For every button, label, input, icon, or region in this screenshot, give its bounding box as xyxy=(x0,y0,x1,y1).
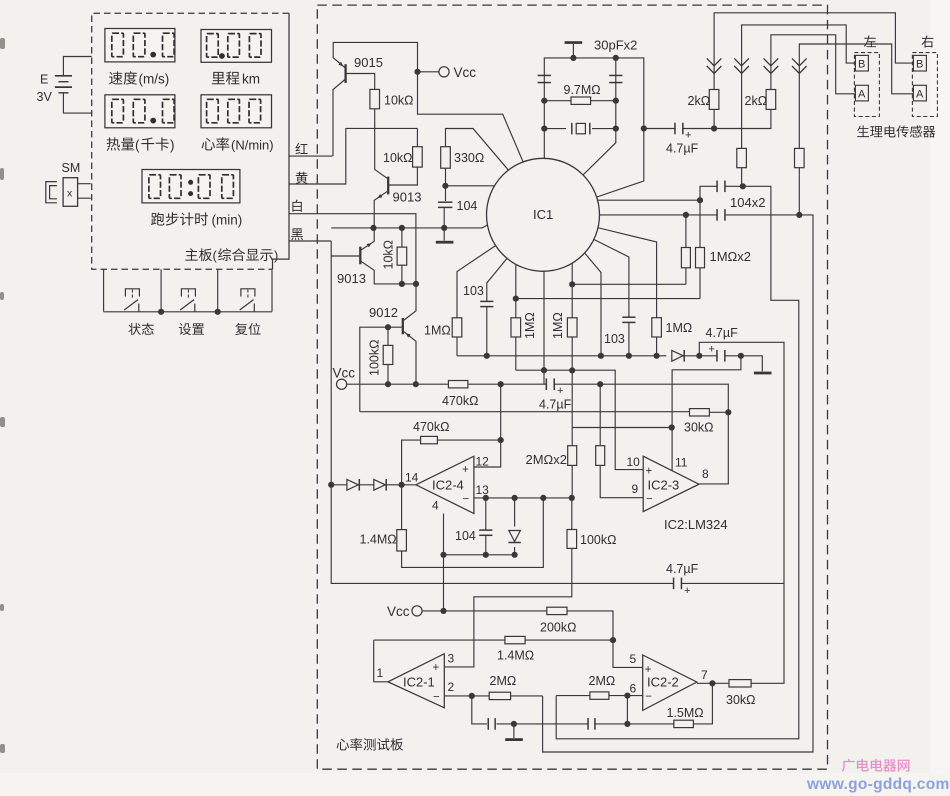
label 黄 xyxy=(296,172,308,184)
wire black rail xyxy=(331,223,492,228)
junction upper 104 tap xyxy=(697,197,703,203)
crystal X1 xyxy=(566,122,592,135)
svg-text:1.5MΩ: 1.5MΩ xyxy=(667,706,704,720)
watermark 广电电器网 xyxy=(842,759,909,772)
sensor right dashed box xyxy=(912,53,937,117)
display 热量 box xyxy=(105,95,175,128)
svg-text:+: + xyxy=(557,385,563,397)
svg-text:4.7µF: 4.7µF xyxy=(539,398,572,412)
heart-rate test board dashed border 心率测试板 xyxy=(317,5,827,769)
wire crystal row xyxy=(544,128,616,130)
diode D2 xyxy=(374,479,385,490)
label 红 xyxy=(295,143,307,154)
svg-text:IC2-3: IC2-3 xyxy=(648,478,680,493)
terminal Vcc2 circle xyxy=(412,606,422,616)
wire pin2 row xyxy=(444,695,542,697)
switch SM magnet symbol xyxy=(46,182,57,203)
junction pin13 100k/2M xyxy=(569,495,575,501)
op-amp U4 IC2-2 (points right) xyxy=(643,655,697,710)
push button S1 xyxy=(125,289,139,297)
label 心率(N/min) xyxy=(202,137,230,150)
label 右 xyxy=(921,35,933,47)
junction antenna tap xyxy=(570,55,576,61)
sensor left dashed box xyxy=(854,53,879,117)
wire IC1 pin to 1M#1 xyxy=(457,244,498,356)
svg-text:(: ( xyxy=(135,138,140,153)
wire 1.4M2 row xyxy=(374,640,643,667)
label 生理电传感器 xyxy=(857,125,935,137)
junction C5/R11 xyxy=(740,183,746,189)
wire C5 right to sensor bus xyxy=(556,186,799,739)
display 跑步计时 box xyxy=(142,170,240,203)
junction 470k2 right xyxy=(498,437,504,443)
label 黑 xyxy=(291,228,303,240)
svg-text:IC1: IC1 xyxy=(533,207,553,222)
junction pin13 D3 xyxy=(511,495,517,501)
svg-text:6: 6 xyxy=(630,682,637,696)
resistor R11 (sensor2) xyxy=(737,148,747,167)
resistor R16 1MΩ xyxy=(511,318,521,337)
capacitor C10 4.7µF electrolytic xyxy=(547,377,553,391)
svg-text:1.4MΩ: 1.4MΩ xyxy=(497,649,534,663)
display 速度 digits 00.0 xyxy=(112,33,124,57)
junction lower 104 left tap xyxy=(683,212,689,218)
op-amp U3 IC2-1 (points left) xyxy=(388,654,444,708)
svg-text:(min): (min) xyxy=(212,213,243,228)
svg-text:(m/s): (m/s) xyxy=(139,72,170,87)
svg-text:Vcc: Vcc xyxy=(333,366,356,381)
junction black rail - C1/gnd xyxy=(441,225,447,231)
svg-text:1.4MΩ: 1.4MΩ xyxy=(360,533,397,547)
transistor Q2 9013 base bar xyxy=(387,177,389,195)
svg-text:−: − xyxy=(646,494,653,506)
switch SM body xyxy=(63,178,78,207)
svg-text:IC2-2: IC2-2 xyxy=(647,675,679,690)
display 跑步计时 digits 00:00 xyxy=(149,175,161,199)
ground G1 xyxy=(443,228,445,241)
svg-text:): ) xyxy=(274,248,278,263)
wire C9-out loop to x784 rail xyxy=(699,342,784,683)
svg-text:200kΩ: 200kΩ xyxy=(540,621,576,635)
svg-text:470kΩ: 470kΩ xyxy=(413,420,449,434)
resistor R9 2kΩ xyxy=(709,90,719,110)
resistor R27 1.4MΩ xyxy=(505,636,525,643)
wire sensor line 3 (to left-A) xyxy=(771,35,855,94)
svg-text:2kΩ: 2kΩ xyxy=(688,94,711,108)
svg-text:30kΩ: 30kΩ xyxy=(726,693,756,707)
junction 9.7M left xyxy=(541,98,547,104)
wire crystal branch left xyxy=(544,58,644,198)
wire button rail xyxy=(104,311,272,313)
transistor Q3 9013 base lead from rail xyxy=(331,255,360,257)
push button S2 xyxy=(181,289,195,297)
wire left bus vertical xyxy=(331,241,673,583)
resistor R26 200kΩ xyxy=(547,607,567,614)
junction bus x601 xyxy=(598,353,604,359)
capacitor C2 30pF xyxy=(538,75,551,77)
resistor R12 (sensor4) xyxy=(795,148,805,167)
junction Vcc rail 470k right xyxy=(498,381,504,387)
resistor R20 30kΩ xyxy=(690,409,710,416)
junction 30k/pin8 node xyxy=(725,409,731,415)
junction bus 1M#4 xyxy=(654,353,660,359)
svg-text:100kΩ: 100kΩ xyxy=(580,533,616,547)
capacitor C12 4.7µF electrolytic xyxy=(674,577,680,591)
svg-text:www.go-gddq.com: www.go-gddq.com xyxy=(806,776,950,793)
junction gnd tap xyxy=(511,721,517,727)
junction C6/sensor4 xyxy=(796,212,802,218)
svg-text:−: − xyxy=(433,692,440,704)
capacitor C13 xyxy=(489,717,494,731)
resistor R31 30kΩ xyxy=(729,680,751,687)
svg-text:IC2:LM324: IC2:LM324 xyxy=(664,517,728,532)
wire pin6 row xyxy=(556,696,643,724)
wire button drops from display unit xyxy=(104,269,272,312)
wire IC1 pin to bus x601 xyxy=(583,251,601,356)
wire 9012-base long rail to 30k xyxy=(360,411,690,413)
junction Vcc tap xyxy=(414,69,420,75)
wire 9015 base to 10k xyxy=(346,74,375,90)
junction pin14 node xyxy=(399,482,405,488)
svg-text:+: + xyxy=(433,662,440,674)
wire sensor line 1 (to right-B) xyxy=(714,13,914,90)
wire sensor line 4 (to right-A) xyxy=(799,44,914,148)
resistor R1 10kΩ xyxy=(375,89,388,178)
transistor Q1 9015 emitter arrow xyxy=(338,62,343,66)
svg-text:104: 104 xyxy=(457,199,478,213)
display 热量 digits 00.0 xyxy=(112,99,124,123)
IC1 chip circle xyxy=(487,158,600,271)
wire pin4 ground rail xyxy=(444,514,515,611)
junction rail D3 xyxy=(511,552,517,558)
svg-text:x: x xyxy=(67,188,73,200)
resistor R2 10kΩ xyxy=(388,128,417,185)
junction R14-bus xyxy=(513,296,519,302)
resistor R22 1.4MΩ xyxy=(402,485,544,568)
junction pin6 xyxy=(624,693,630,699)
resistor R14 1MΩx2 right xyxy=(699,200,701,298)
wire pin10 rail xyxy=(516,370,643,469)
display 心率 box xyxy=(201,95,272,128)
junction buttons node 2 xyxy=(215,309,221,315)
transistor Q4 9012 emitter wire xyxy=(403,331,416,384)
svg-text:4.7µF: 4.7µF xyxy=(706,326,739,340)
junction C4 left xyxy=(641,125,647,131)
junction 9012 base / 100k xyxy=(385,324,391,330)
svg-text:3: 3 xyxy=(448,652,455,666)
svg-text:30kΩ: 30kΩ xyxy=(684,421,714,435)
capacitor C7 103 xyxy=(480,300,493,302)
label 热量(千卡) xyxy=(107,137,135,150)
svg-text:103: 103 xyxy=(463,284,484,298)
svg-text:3V: 3V xyxy=(37,90,53,104)
junction bus 103#1 xyxy=(484,353,490,359)
resistor R10 2kΩ xyxy=(766,90,776,110)
capacitor C3 30pF xyxy=(609,75,622,77)
junction Vcc rail 100k xyxy=(385,381,391,387)
svg-text:10kΩ: 10kΩ xyxy=(382,240,396,270)
display 里程 box xyxy=(201,30,272,63)
svg-text:9: 9 xyxy=(632,482,639,496)
ground G3 xyxy=(513,724,515,738)
junction pin7/1.5M xyxy=(709,680,715,686)
junction Vcc rail 9012 xyxy=(413,381,419,387)
capacitor C11 104 xyxy=(485,498,487,555)
resistor R30 2MΩ xyxy=(590,692,609,699)
label 状态 xyxy=(128,323,153,335)
svg-text:IC2-4: IC2-4 xyxy=(432,478,464,493)
junction pin13 feedback xyxy=(540,495,546,501)
capacitor C4 4.7µF electrolytic xyxy=(644,128,714,130)
svg-text:−: − xyxy=(463,494,470,506)
svg-text:5: 5 xyxy=(630,652,637,666)
svg-text:B: B xyxy=(916,59,923,71)
diode D3 vertical xyxy=(514,498,516,555)
wire 2k bottoms to C4 node xyxy=(714,109,771,128)
svg-text:103: 103 xyxy=(604,332,625,346)
diode D4 xyxy=(672,350,683,361)
wire 白 white lead xyxy=(289,214,416,284)
junction collector rail R3 xyxy=(399,281,405,287)
label 白 xyxy=(292,200,301,212)
svg-text:−: − xyxy=(645,691,652,703)
wire 红 red lead xyxy=(289,155,332,157)
svg-text:10kΩ: 10kΩ xyxy=(384,94,414,108)
wire main bottom bus xyxy=(457,356,762,372)
junction black rail - R3 top xyxy=(399,225,405,231)
op-amp U1 IC2-4 (points left) xyxy=(416,456,474,513)
battery E 3V wires xyxy=(63,57,91,114)
junction C4 right / 2k xyxy=(711,125,717,131)
junction bus C9 right xyxy=(738,353,744,359)
label 里程km xyxy=(212,72,240,85)
label 心率测试板 xyxy=(337,738,403,751)
svg-text:100kΩ: 100kΩ xyxy=(368,340,382,376)
svg-text:SM: SM xyxy=(62,161,81,175)
junction bus diode out xyxy=(696,353,702,359)
capacitor C8 103 xyxy=(622,316,635,318)
junction Vcc rail 2M right xyxy=(597,381,603,387)
display 里程 digits 0.00 xyxy=(207,34,219,58)
junction pin11/2M rail xyxy=(669,424,675,430)
wire Vcc2 rail xyxy=(422,611,613,640)
resistor R8 9.7MΩ xyxy=(571,97,591,104)
junction rail C11 xyxy=(483,552,489,558)
transistor Q2 9013 emitter wire xyxy=(374,191,388,228)
svg-text:1: 1 xyxy=(377,666,384,680)
svg-text:330Ω: 330Ω xyxy=(454,151,484,165)
sensor right B plate xyxy=(913,55,926,71)
svg-text:1MΩx2: 1MΩx2 xyxy=(710,249,752,264)
terminal Vcc circle xyxy=(439,67,449,77)
label 设置 xyxy=(179,323,204,335)
junction crystal left xyxy=(541,126,547,132)
svg-text:A: A xyxy=(858,89,866,101)
resistor R21 470kΩ xyxy=(421,436,438,443)
label 跑步计时 (min) xyxy=(151,212,208,225)
transistor Q4 9012 collector wire xyxy=(403,284,416,321)
junction collector rail white xyxy=(413,281,419,287)
wire C12 right xyxy=(682,582,784,584)
junction pin13 C11 xyxy=(483,495,489,501)
capacitor C14 xyxy=(589,717,594,731)
junction crystal right xyxy=(613,126,619,132)
resistor R29 1.5MΩ xyxy=(674,720,694,727)
capacitor C5 104 upper xyxy=(718,180,724,194)
junction 200k/1.4M node xyxy=(610,637,616,643)
svg-text:+: + xyxy=(646,466,653,478)
svg-text:13: 13 xyxy=(476,483,490,497)
resistor R28 2MΩ xyxy=(489,692,510,699)
svg-text:10: 10 xyxy=(627,455,641,469)
svg-text:30pFx2: 30pFx2 xyxy=(594,38,637,53)
svg-text:104x2: 104x2 xyxy=(730,195,765,210)
wire diode input row xyxy=(331,484,416,486)
antenna test bar xyxy=(572,44,574,58)
svg-text:Vcc: Vcc xyxy=(387,604,410,619)
wire IC1 pin x572 chain xyxy=(572,262,672,498)
junction 9.7M right xyxy=(613,98,619,104)
svg-text:4.7µF: 4.7µF xyxy=(666,142,699,156)
wire IC2-1 output loop xyxy=(374,640,388,682)
transistor Q3 9013 base bar xyxy=(359,247,361,265)
wire sensor line 2 (to left-B) xyxy=(742,25,856,148)
transistor Q4 9012 base bar xyxy=(402,318,404,334)
wire C6 right jog down right-rail xyxy=(543,215,813,752)
svg-text:470kΩ: 470kΩ xyxy=(442,394,478,408)
svg-text:10kΩ: 10kΩ xyxy=(383,151,413,165)
resistor R19 470kΩ xyxy=(448,381,468,388)
wire Vcc terminal lead xyxy=(418,71,439,73)
svg-text:B: B xyxy=(858,59,865,71)
label 复位 xyxy=(235,323,260,335)
svg-text:4.7µF: 4.7µF xyxy=(666,562,699,576)
wire 330R bottom node to IC1 pin xyxy=(445,168,500,201)
display 心率 digits 000 xyxy=(207,99,219,123)
junction rail pin4 xyxy=(440,552,446,558)
resistor R24 2MΩx2 right xyxy=(600,384,643,498)
junction bus 103#2 xyxy=(626,353,632,359)
resistor R18 1MΩ xyxy=(652,318,662,337)
junction top right corner xyxy=(613,55,619,61)
wire IC1 pin to 103#2 xyxy=(593,239,629,356)
svg-text:(N/min): (N/min) xyxy=(231,138,274,153)
battery E plates xyxy=(55,75,72,77)
svg-text:2MΩx2: 2MΩx2 xyxy=(526,452,568,467)
junction 330R/104 node xyxy=(442,183,448,189)
sensor left A plate xyxy=(855,85,868,101)
display unit right edge xyxy=(273,13,290,269)
wire 330R top to IC1 xyxy=(446,129,511,173)
svg-text:E: E xyxy=(40,73,48,87)
svg-text:8: 8 xyxy=(702,467,709,481)
svg-text:(: ( xyxy=(213,248,218,263)
switch SM wires xyxy=(78,184,91,199)
scan artifacts left edge xyxy=(0,38,5,49)
svg-text:+: + xyxy=(684,585,690,597)
junction x572 pin10 rail xyxy=(569,367,575,373)
svg-text:IC2-1: IC2-1 xyxy=(403,675,435,690)
capacitor C6 104 lower xyxy=(718,208,724,222)
wire IC1 right pin to 104x2 upper xyxy=(597,186,717,200)
svg-text:2kΩ: 2kΩ xyxy=(745,94,768,108)
svg-text:9015: 9015 xyxy=(354,55,383,70)
transistor Q4 9012 base wire xyxy=(360,327,403,412)
wire R12 to 104 row xyxy=(798,168,800,215)
svg-text:+: + xyxy=(709,344,715,356)
wire IC1 pin to 103#1 xyxy=(487,256,509,356)
wire 9.7M row xyxy=(544,100,616,102)
svg-text:12: 12 xyxy=(476,455,490,469)
svg-text:2MΩ: 2MΩ xyxy=(490,674,517,688)
wire 9015 collector to red xyxy=(333,79,346,156)
transistor Q1 9015 base bar xyxy=(344,64,346,83)
svg-text:2: 2 xyxy=(448,680,455,694)
resistor R3 10kΩ xyxy=(401,228,403,284)
wire IC1 pin x516 xyxy=(515,262,517,370)
wire cap row bottom xyxy=(472,683,713,724)
junction C14/pin6 xyxy=(624,721,630,727)
wire IC1 right pin to 104x2 lower xyxy=(597,214,717,216)
wire crystal branch right xyxy=(581,58,616,177)
svg-text:1MΩ: 1MΩ xyxy=(551,312,565,339)
svg-text:km: km xyxy=(242,72,260,87)
junction Vcc2/IC2-1 supply xyxy=(440,608,446,614)
svg-text:9012: 9012 xyxy=(369,305,398,320)
svg-text:2MΩ: 2MΩ xyxy=(589,674,616,688)
svg-text:1MΩ: 1MΩ xyxy=(666,321,693,335)
label 速度(m/s) xyxy=(109,71,137,84)
svg-text:+: + xyxy=(645,664,652,676)
push button S3 xyxy=(241,289,255,297)
svg-text:1MΩ: 1MΩ xyxy=(523,312,537,339)
label 左 xyxy=(864,35,876,47)
resistor R23 2MΩx2 left xyxy=(568,446,577,466)
wire IC1 center pin x544 xyxy=(543,262,545,384)
wire C9 bottom jog to pin11 branch xyxy=(672,356,741,471)
resistor R17 1MΩ xyxy=(567,318,577,337)
junction R13-bus xyxy=(569,281,575,287)
capacitor C9 4.7µF electrolytic xyxy=(718,349,724,363)
wire 9015 emitter to Vcc rail xyxy=(333,42,524,164)
ground G2 xyxy=(754,372,772,375)
junction x544 pin10 rail xyxy=(541,367,547,373)
wire pin13 row xyxy=(474,497,572,499)
wire 30k right lead xyxy=(709,411,728,413)
junction buttons node 1 xyxy=(158,309,164,315)
transistor Q3 9013 emitter wire xyxy=(360,228,374,251)
svg-text:+: + xyxy=(685,130,691,142)
resistor R7 100kΩ xyxy=(387,327,389,384)
wire 470k2 loop xyxy=(402,384,501,485)
wire R14 bottom to IC1 bus xyxy=(515,298,700,300)
sensor right A plate xyxy=(913,85,926,101)
wire 黑 black lead xyxy=(289,240,331,242)
svg-text:11: 11 xyxy=(675,456,688,470)
junction left bus diode row xyxy=(328,482,334,488)
junction pin2 xyxy=(469,693,475,699)
svg-text:4: 4 xyxy=(432,499,439,513)
transistor Q3 9013 collector wire xyxy=(360,261,416,284)
svg-text:+: + xyxy=(462,464,469,476)
op-amp U2 IC2-3 (points right) xyxy=(643,456,699,511)
wire IC1 pin to 1M#4 xyxy=(597,228,657,356)
arrow sensor 4 xyxy=(792,58,807,65)
resistor R4 330Ω xyxy=(441,147,451,169)
label 主板(综合显示) xyxy=(185,248,212,261)
terminal Vcc1 circle xyxy=(337,379,347,389)
resistor R25 100kΩ xyxy=(444,498,572,667)
